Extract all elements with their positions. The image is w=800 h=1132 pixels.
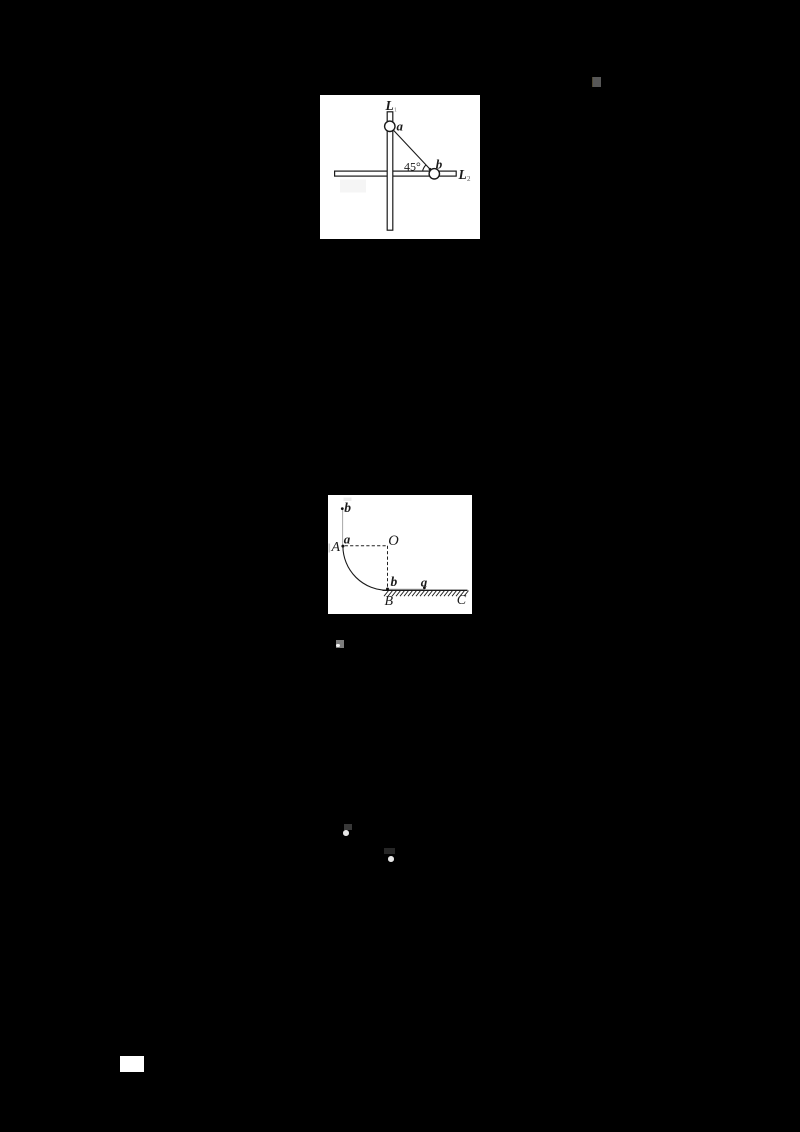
- svg-text:a: a: [421, 574, 428, 589]
- svg-text:2: 2: [467, 175, 471, 183]
- svg-text:45°: 45°: [404, 159, 421, 173]
- svg-text:C: C: [457, 593, 467, 608]
- svg-text:b: b: [344, 500, 351, 515]
- svg-text:1: 1: [394, 108, 397, 114]
- svg-text:a: a: [344, 532, 351, 547]
- svg-text:L: L: [385, 98, 394, 113]
- svg-text:O: O: [388, 533, 399, 549]
- svg-text:a: a: [397, 119, 404, 134]
- svg-text:A: A: [331, 540, 341, 555]
- svg-text:B: B: [385, 594, 394, 609]
- svg-text:b: b: [391, 574, 398, 589]
- svg-text:L: L: [458, 167, 467, 182]
- svg-text:b: b: [436, 157, 443, 172]
